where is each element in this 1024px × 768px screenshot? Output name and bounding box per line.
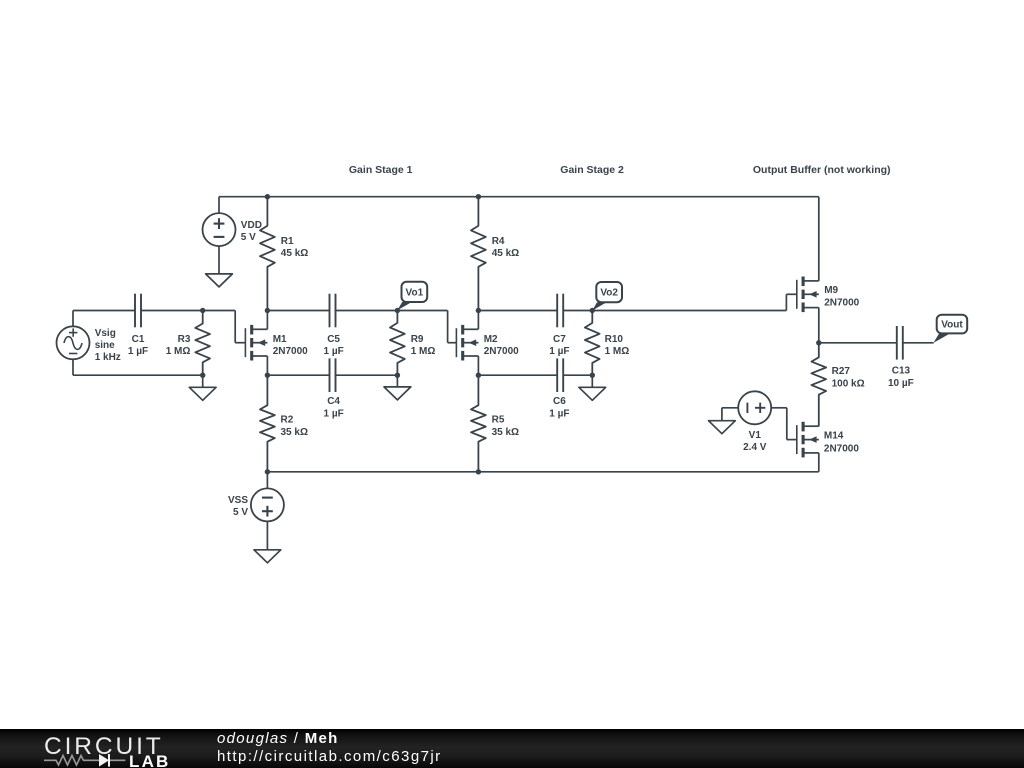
- capacitor C6: [557, 358, 563, 392]
- svg-text:35 kΩ: 35 kΩ: [492, 427, 519, 438]
- wire C5 to node Vo1: [336, 310, 398, 312]
- voltage source Vsig: [57, 326, 90, 359]
- wire to C13: [819, 342, 897, 344]
- ground below R3: [189, 387, 216, 400]
- svg-text:35 kΩ: 35 kΩ: [281, 427, 308, 438]
- wire M2 source column: [477, 356, 479, 375]
- svg-text:R5: R5: [492, 415, 505, 426]
- transistor M2 2N7000: [456, 325, 478, 361]
- wire M9 source column: [818, 308, 820, 343]
- wire top rail to M9 drain: [818, 197, 820, 281]
- svg-text:10 µF: 10 µF: [888, 378, 914, 389]
- junction R4 top: [476, 194, 481, 199]
- svg-text:R10: R10: [605, 334, 624, 345]
- junction R3 top node: [200, 308, 205, 313]
- svg-text:1 kHz: 1 kHz: [95, 352, 121, 363]
- svg-text:C1: C1: [132, 334, 145, 345]
- wire R10 to ground stem: [591, 375, 593, 387]
- wire M1 drain column: [266, 311, 268, 330]
- junction R3 bottom node: [200, 373, 205, 378]
- wire M2 gate jog vertical: [447, 311, 449, 343]
- capacitor C1: [135, 294, 141, 328]
- wire C4 to R9 bottom: [336, 374, 398, 376]
- svg-text:M1: M1: [273, 334, 287, 345]
- wire M2 drain column: [477, 311, 479, 330]
- wire M2 source to C6: [478, 374, 557, 376]
- node flag Vo2: [592, 282, 622, 311]
- svg-text:C13: C13: [892, 366, 911, 377]
- wire Vsig bottom lead: [72, 359, 74, 375]
- junction M1 source node: [265, 373, 270, 378]
- resistor R4: [471, 197, 486, 311]
- svg-text:V1: V1: [749, 430, 762, 441]
- svg-text:1 MΩ: 1 MΩ: [411, 346, 436, 357]
- node flag Vo1: [397, 282, 427, 311]
- svg-text:2.4 V: 2.4 V: [743, 442, 767, 453]
- wire V1 to ground stem: [721, 408, 723, 421]
- resistor R1: [260, 197, 275, 311]
- junction R9 bottom: [395, 373, 400, 378]
- wire M1 drain to C5: [267, 310, 329, 312]
- wire R3 to ground stem: [202, 375, 204, 387]
- svg-text:M14: M14: [824, 431, 844, 442]
- resistor R5: [471, 375, 486, 472]
- svg-text:VDD: VDD: [241, 220, 262, 231]
- svg-text:5 V: 5 V: [241, 232, 256, 243]
- ground below VSS: [254, 550, 281, 563]
- wire M9 gate jog vertical: [785, 294, 787, 310]
- footer byline odouglas / Meh: [217, 731, 339, 746]
- CircuitLab logo resistor-diode glyph: [44, 729, 224, 768]
- wire M1 gate jog vertical: [234, 311, 236, 343]
- resistor R2: [260, 375, 275, 472]
- capacitor C7: [557, 294, 563, 328]
- voltage source V1: [738, 391, 771, 424]
- wire C1 to R3 top: [141, 310, 203, 312]
- wire Vo2 to M9 gate jog: [592, 310, 786, 312]
- svg-text:1 MΩ: 1 MΩ: [166, 346, 191, 357]
- wire C7 to node Vo2: [563, 310, 592, 312]
- svg-text:Vo1: Vo1: [406, 288, 424, 299]
- footer url: [217, 748, 442, 765]
- svg-text:Output Buffer (not working): Output Buffer (not working): [753, 164, 891, 176]
- capacitor C5: [330, 294, 336, 328]
- ground below VDD: [206, 274, 233, 287]
- svg-text:1 µF: 1 µF: [549, 346, 569, 357]
- wire Vsig to R3 bottom: [73, 374, 203, 376]
- junction R1 top: [265, 194, 270, 199]
- wire to M2 gate: [448, 342, 457, 344]
- junction M9 source / R27 / C13: [816, 340, 821, 345]
- transistor M9 2N7000: [797, 277, 819, 313]
- transistor M1 2N7000: [245, 325, 267, 361]
- wire VDD top lead: [218, 197, 220, 213]
- wire V1 plus lead: [771, 407, 787, 409]
- wire C13 to Vout: [903, 342, 934, 344]
- svg-text:Vsig: Vsig: [95, 328, 116, 339]
- svg-text:R9: R9: [411, 334, 424, 345]
- wire M14 source column: [818, 453, 820, 472]
- CircuitLab logo word LAB: [129, 752, 171, 768]
- svg-text:C7: C7: [553, 334, 566, 345]
- svg-text:M2: M2: [484, 334, 498, 345]
- wire top VDD rail: [219, 196, 819, 198]
- wire to M1 gate: [235, 342, 245, 344]
- svg-text:1 µF: 1 µF: [323, 409, 343, 420]
- svg-text:2N7000: 2N7000: [824, 298, 859, 309]
- svg-text:1 µF: 1 µF: [549, 409, 569, 420]
- svg-text:45 kΩ: 45 kΩ: [492, 248, 519, 259]
- junction node Vo1: [395, 308, 400, 313]
- junction VSS node: [265, 469, 270, 474]
- wire Vsig to C1: [73, 310, 135, 312]
- svg-text:M9: M9: [824, 285, 838, 296]
- capacitor C4: [330, 358, 336, 392]
- svg-text:5 V: 5 V: [233, 507, 248, 518]
- wire VSS bottom lead: [266, 521, 268, 549]
- svg-text:sine: sine: [95, 340, 115, 351]
- wire M2 drain to C7: [478, 310, 557, 312]
- junction R5 bottom: [476, 469, 481, 474]
- svg-text:2N7000: 2N7000: [824, 443, 859, 454]
- svg-text:VSS: VSS: [228, 495, 248, 506]
- CircuitLab logo word CIRCUIT: [44, 733, 164, 761]
- junction M1 drain node: [265, 308, 270, 313]
- ground below V1: [709, 421, 736, 434]
- svg-text:Gain Stage 1: Gain Stage 1: [349, 164, 413, 176]
- svg-text:C4: C4: [327, 396, 340, 407]
- svg-text:R2: R2: [281, 415, 294, 426]
- svg-text:R3: R3: [178, 334, 191, 345]
- wire M1 source to C4: [267, 374, 329, 376]
- svg-text:Vo2: Vo2: [600, 288, 618, 299]
- svg-text:Gain Stage 2: Gain Stage 2: [560, 164, 624, 176]
- wire VSS top lead: [266, 472, 268, 489]
- svg-text:C5: C5: [327, 334, 340, 345]
- svg-text:1 µF: 1 µF: [128, 346, 148, 357]
- Vsig sine waveform symbol: [64, 337, 82, 350]
- wire M1 source column: [266, 356, 268, 375]
- svg-text:Vout: Vout: [941, 320, 963, 331]
- wire Vsig top lead: [72, 311, 74, 327]
- transistor M14 2N7000: [797, 422, 819, 458]
- resistor R3: [195, 311, 210, 376]
- svg-text:45 kΩ: 45 kΩ: [281, 248, 308, 259]
- svg-text:R27: R27: [832, 366, 851, 377]
- resistor R10: [585, 311, 600, 376]
- capacitor C13: [897, 326, 903, 360]
- svg-text:R1: R1: [281, 236, 294, 247]
- svg-text:1 MΩ: 1 MΩ: [605, 346, 630, 357]
- wire R3 node to M1 gate jog: [203, 310, 236, 312]
- wire bottom VSS rail: [267, 471, 818, 473]
- svg-text:C6: C6: [553, 396, 566, 407]
- svg-text:2N7000: 2N7000: [484, 346, 519, 357]
- junction R10 bottom: [590, 373, 595, 378]
- ground below R9: [384, 387, 411, 400]
- junction node Vo2: [590, 308, 595, 313]
- wire C6 to R10 bottom: [563, 374, 592, 376]
- resistor R9: [390, 311, 405, 376]
- wire Vo1 to M2 gate jog: [397, 310, 447, 312]
- wire VDD bottom lead: [218, 246, 220, 274]
- svg-text:2N7000: 2N7000: [273, 346, 308, 357]
- voltage source VSS: [251, 488, 284, 521]
- wire V1 to M14 gate jog: [786, 408, 788, 440]
- resistor R27: [811, 343, 826, 426]
- ground below R10: [579, 387, 606, 400]
- junction M2 drain node: [476, 308, 481, 313]
- wire to M9 gate: [786, 293, 796, 295]
- wire R9 to ground stem: [396, 375, 398, 387]
- wire V1 minus lead: [722, 407, 738, 409]
- voltage source VDD: [203, 213, 236, 246]
- junction M2 source node: [476, 373, 481, 378]
- svg-text:1 µF: 1 µF: [323, 346, 343, 357]
- wire to M14 gate: [787, 439, 797, 441]
- svg-text:100 kΩ: 100 kΩ: [832, 378, 865, 389]
- svg-text:R4: R4: [492, 236, 505, 247]
- node flag Vout: [933, 315, 967, 343]
